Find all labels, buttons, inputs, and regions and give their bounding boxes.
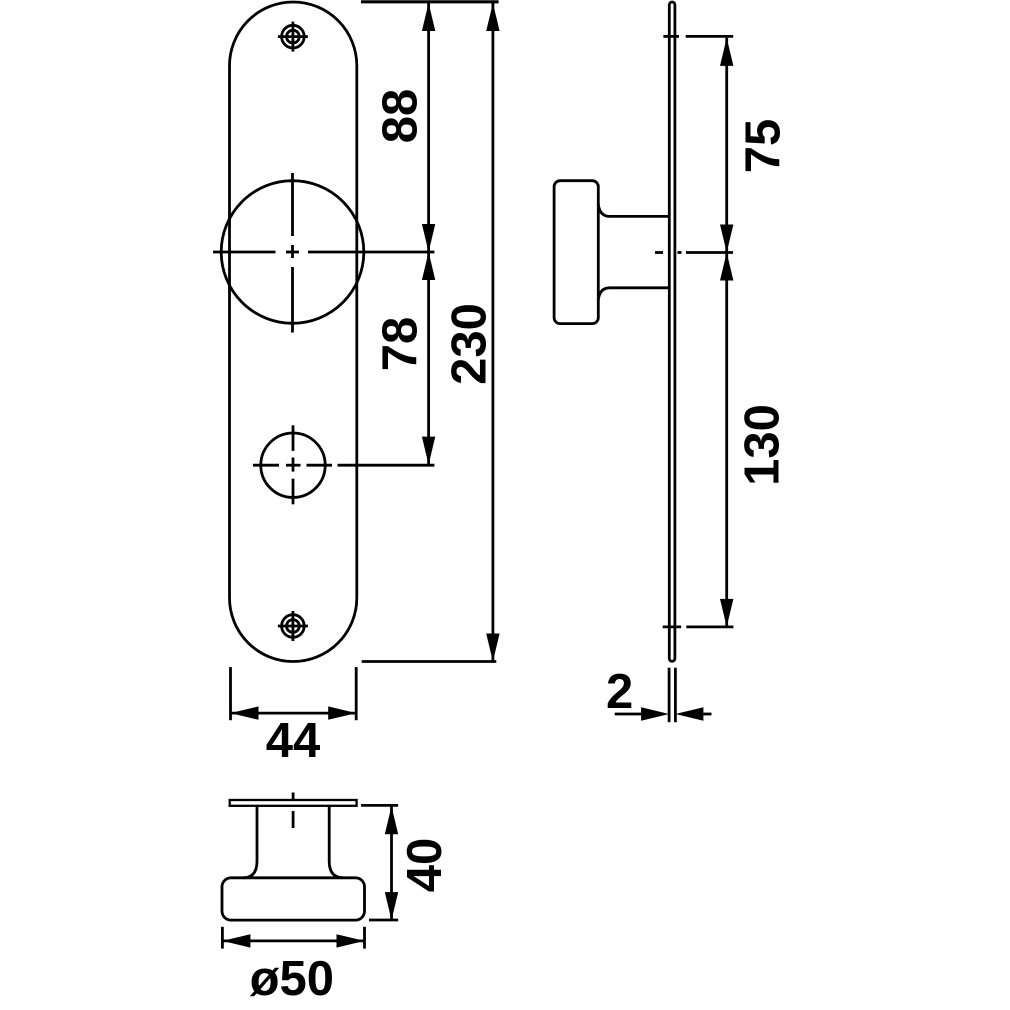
dimension line 230 [491, 3, 494, 662]
knob detail flange bar [230, 800, 357, 806]
knob vertical center line [291, 173, 294, 333]
arrow 40 bottom [385, 892, 398, 920]
dimension line 40 [390, 806, 393, 920]
knob horizontal center line [213, 251, 434, 254]
dimension 44 extension lines [231, 667, 357, 720]
front view backplate outline [230, 2, 357, 662]
dimension line 78 [427, 252, 430, 465]
knob detail center line [292, 793, 295, 829]
side view plate [669, 2, 675, 661]
bottom screw hole symbol [278, 611, 308, 641]
dimension line 88 [427, 3, 430, 252]
side view center line [655, 251, 733, 254]
knob detail neck left [243, 806, 257, 878]
arrow 2 right [675, 707, 703, 720]
arrow 78 bottom [422, 437, 435, 465]
arrow 50 left [222, 934, 250, 947]
dimension 40 extension lines [361, 805, 398, 920]
dimension line 50 [222, 940, 364, 943]
side view knob cap [554, 181, 598, 324]
bottom extension line [362, 660, 497, 663]
svg-text:ø50: ø50 [250, 952, 334, 1006]
svg-text:40: 40 [398, 838, 452, 893]
dimension line 2 [615, 713, 712, 716]
arrow 88 top [422, 3, 435, 31]
arrow 2 left [641, 707, 669, 720]
arrow 130 bottom [720, 599, 733, 627]
lower hole vertical center line [292, 425, 295, 504]
svg-text:130: 130 [736, 404, 790, 486]
knob circle front view [221, 181, 364, 324]
svg-text:230: 230 [443, 303, 497, 385]
dimension 2 extension lines [669, 668, 675, 723]
side view top extension line [663, 35, 733, 38]
svg-text:44: 44 [266, 714, 321, 768]
dimension line 44 [231, 712, 357, 715]
dimension line 75 and 130 [725, 38, 728, 627]
arrow 75 bottom [720, 225, 733, 253]
arrow 130 top [720, 253, 733, 281]
dimension 50 extension lines [222, 927, 364, 949]
arrow 230 bottom [486, 634, 499, 662]
arrow 88 bottom [422, 224, 435, 252]
knob detail neck right [329, 806, 343, 878]
arrow 44 right [328, 706, 356, 719]
svg-text:75: 75 [737, 119, 791, 174]
top extension line [361, 0, 499, 3]
svg-text:78: 78 [374, 317, 428, 372]
arrow 50 right [337, 934, 365, 947]
top screw hole symbol [278, 22, 308, 52]
svg-text:2: 2 [606, 665, 633, 719]
knob detail cap [222, 878, 365, 920]
side view knob neck bottom [598, 288, 668, 300]
arrow 75 top [720, 38, 733, 66]
lower hole horizontal center line [253, 464, 434, 467]
svg-text:88: 88 [374, 89, 428, 144]
arrow 40 top [385, 806, 398, 834]
arrow 44 left [231, 706, 259, 719]
side view bottom extension line [663, 626, 734, 629]
lower hole circle [261, 433, 325, 497]
arrow 78 top [422, 252, 435, 280]
side view knob neck top [598, 204, 668, 216]
arrow 230 top [486, 3, 499, 31]
